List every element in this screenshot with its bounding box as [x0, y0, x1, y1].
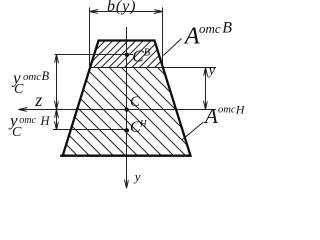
svg-text:В: В: [42, 69, 50, 83]
svg-text:C: C: [132, 47, 144, 66]
svg-text:y: y: [133, 169, 141, 184]
svg-text:отс: отс: [23, 71, 41, 83]
svg-text:C: C: [12, 125, 22, 140]
svg-text:C: C: [14, 82, 24, 97]
svg-text:Н: Н: [139, 119, 147, 129]
svg-text:Н: Н: [40, 114, 51, 128]
svg-text:В: В: [222, 20, 232, 37]
svg-text:Н: Н: [235, 102, 246, 116]
svg-text:A: A: [183, 24, 200, 50]
svg-text:A: A: [203, 104, 218, 128]
svg-text:C: C: [130, 94, 141, 110]
svg-text:z: z: [34, 90, 42, 110]
svg-text:отс: отс: [199, 21, 221, 36]
svg-text:отс: отс: [218, 105, 236, 116]
svg-text:y: y: [207, 63, 216, 78]
svg-text:В: В: [144, 47, 151, 59]
svg-text:b(y): b(y): [107, 0, 136, 15]
svg-text:отс: отс: [19, 115, 36, 126]
